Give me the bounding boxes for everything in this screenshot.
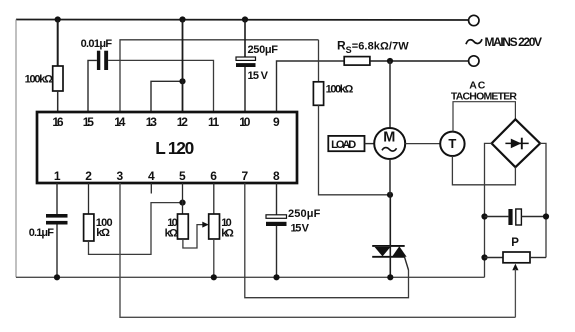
node dot C4 / ground rail xyxy=(273,274,279,280)
svg-text:kΩ: kΩ xyxy=(165,227,178,239)
triac Q1 xyxy=(372,245,405,247)
label bracket tachometer xyxy=(453,102,515,132)
svg-text:A: A xyxy=(469,79,477,91)
wire R2 bottom jog to pin5 line xyxy=(89,203,183,255)
svg-text:10: 10 xyxy=(239,115,251,129)
wire R1 bottom lead to pin16 xyxy=(57,91,59,112)
capacitor C1 0.01uF xyxy=(97,51,100,70)
svg-text:16: 16 xyxy=(52,115,64,129)
svg-text:100kΩ: 100kΩ xyxy=(326,84,354,96)
wire R1 top lead xyxy=(57,20,59,67)
bridge rectifier D1 diamond xyxy=(492,119,540,167)
wire pin12 vertical xyxy=(182,20,184,113)
svg-text:15 V: 15 V xyxy=(291,223,310,235)
svg-text:2: 2 xyxy=(85,169,92,183)
svg-text:1: 1 xyxy=(54,169,61,183)
node dot cap C5 left xyxy=(481,213,487,219)
wire pin6 down xyxy=(213,183,215,214)
wire motor top lead xyxy=(389,61,391,128)
wire C1 right lead to pin11 xyxy=(108,60,213,112)
node dot top rail / C2 xyxy=(242,16,248,22)
wire bridge left corner down xyxy=(485,143,492,277)
svg-text:15 V: 15 V xyxy=(248,70,269,82)
svg-text:kΩ: kΩ xyxy=(96,227,110,239)
wiper arrow into R4 xyxy=(202,222,208,228)
motor M1 circle xyxy=(374,128,405,159)
label motor tilde xyxy=(382,148,397,152)
svg-text:12: 12 xyxy=(177,115,189,129)
wire LOAD to motor xyxy=(365,143,375,145)
wire pin7 down and right to triac gate xyxy=(245,183,409,298)
node dot top rail / pin12 xyxy=(179,16,185,22)
svg-text:250μF: 250μF xyxy=(288,208,321,220)
resistor R1 100kOhm (pin 16) xyxy=(53,66,63,91)
diode inside bridge xyxy=(505,142,528,144)
wire pin2 down xyxy=(88,183,90,214)
svg-text:3: 3 xyxy=(116,169,123,183)
wire C3 bottom lead xyxy=(56,225,58,278)
wire left border vertical xyxy=(15,20,17,278)
svg-text:kΩ: kΩ xyxy=(221,227,234,239)
svg-text:250μF: 250μF xyxy=(248,44,279,56)
svg-text:MAINS 220V: MAINS 220V xyxy=(485,35,543,49)
wire top supply rail xyxy=(16,19,469,22)
svg-text:6: 6 xyxy=(210,169,217,183)
node dot top of R1 xyxy=(55,16,61,22)
resistor R3 10kOhm (pin 5) xyxy=(178,214,189,239)
wire pin13 jog to pin12 line xyxy=(151,81,183,112)
wire R3 bottom to pot wiper xyxy=(183,225,205,248)
svg-text:4: 4 xyxy=(148,169,155,183)
svg-text:L 120: L 120 xyxy=(155,138,194,158)
wire bridge right corner down xyxy=(540,143,546,257)
wire pin9 up to mains line xyxy=(277,61,345,112)
svg-text:0.1μF: 0.1μF xyxy=(29,227,54,239)
svg-text:15: 15 xyxy=(83,115,95,129)
resistor RS 6.8kOhm 7W xyxy=(344,57,370,66)
wire C2 top lead xyxy=(244,20,246,58)
node dot P left xyxy=(481,254,487,260)
svg-text:9: 9 xyxy=(273,115,280,129)
capacitor C3 0.1uF (pin 1) xyxy=(46,214,68,218)
wire pin1 down xyxy=(56,183,58,214)
svg-text:8: 8 xyxy=(273,169,280,183)
wire triac gate diagonal xyxy=(405,257,409,270)
wiper arrow of P xyxy=(512,264,518,271)
svg-text:LOAD: LOAD xyxy=(331,139,356,151)
LOAD box xyxy=(328,136,364,151)
resistor R5 100kOhm xyxy=(313,82,323,106)
svg-text:P: P xyxy=(511,237,519,249)
wire pin5 down xyxy=(182,183,184,214)
capacitor C5 xyxy=(508,209,512,225)
svg-text:13: 13 xyxy=(146,115,158,129)
wire tach bottom to bridge bottom xyxy=(452,156,515,185)
svg-text:100kΩ: 100kΩ xyxy=(25,73,53,85)
wire RS right to mains terminal xyxy=(370,60,469,62)
svg-text:TACHOMETER: TACHOMETER xyxy=(451,91,518,103)
wire C4 bottom lead xyxy=(276,226,278,277)
terminal mains lower xyxy=(469,56,479,66)
node dot R2 / pin5 line xyxy=(179,200,185,206)
wire C1 left lead to pin15 xyxy=(88,60,97,112)
wire pin3 down and right to P wiper xyxy=(120,183,515,317)
wire P wiper down xyxy=(514,269,516,317)
wire P right lead xyxy=(530,257,546,259)
terminal mains upper xyxy=(469,15,479,25)
wire R4 bottom to ground rail xyxy=(213,239,215,277)
potentiometer R4 10kOhm (pin 6) xyxy=(209,214,220,239)
node dot RS / motor branch xyxy=(387,58,393,64)
wire pin14 up and right to R5 xyxy=(120,40,319,112)
svg-text:0.01μF: 0.01μF xyxy=(81,38,113,50)
wire C5 right lead xyxy=(521,216,546,218)
label tilde mains xyxy=(466,39,482,44)
resistor R2 100kOhm (pin 2) xyxy=(84,214,94,241)
svg-text:C: C xyxy=(478,79,486,91)
svg-text:11: 11 xyxy=(208,115,220,129)
svg-text:14: 14 xyxy=(114,115,126,129)
svg-text:M: M xyxy=(383,129,395,145)
svg-text:T: T xyxy=(448,136,456,151)
wire motor to tachometer xyxy=(405,143,440,145)
node dot cap C5 right xyxy=(543,213,549,219)
wire R5 bottom to triac anode line xyxy=(319,105,391,195)
potentiometer P body xyxy=(503,252,530,263)
capacitor C4 250uF (pin 8) xyxy=(266,215,287,219)
node dot triac / ground rail xyxy=(387,274,393,280)
wire C2 bottom lead to pin10 xyxy=(244,67,246,112)
wire pin4 stub xyxy=(150,183,152,194)
wire motor bottom lead xyxy=(389,159,391,195)
node dot R5 / motor-triac line xyxy=(387,192,393,198)
svg-text:7: 7 xyxy=(241,169,248,183)
wire C5 left lead xyxy=(485,216,509,218)
node dot pin13-pin12 junction xyxy=(179,78,185,84)
node dot C3 / ground rail xyxy=(54,274,60,280)
svg-text:5: 5 xyxy=(179,169,186,183)
wire P left lead xyxy=(485,257,504,259)
wire R5 top lead xyxy=(318,40,320,82)
capacitor C2 250uF (pin 10) xyxy=(236,57,256,60)
wire triac main vertical xyxy=(389,195,391,277)
wire bottom ground rail xyxy=(16,276,485,278)
wire pin8 down xyxy=(276,183,278,215)
tachometer T1 circle xyxy=(440,132,464,156)
op-amp U1 IC L120 body xyxy=(37,112,297,183)
node dot R4 / ground rail xyxy=(211,274,217,280)
